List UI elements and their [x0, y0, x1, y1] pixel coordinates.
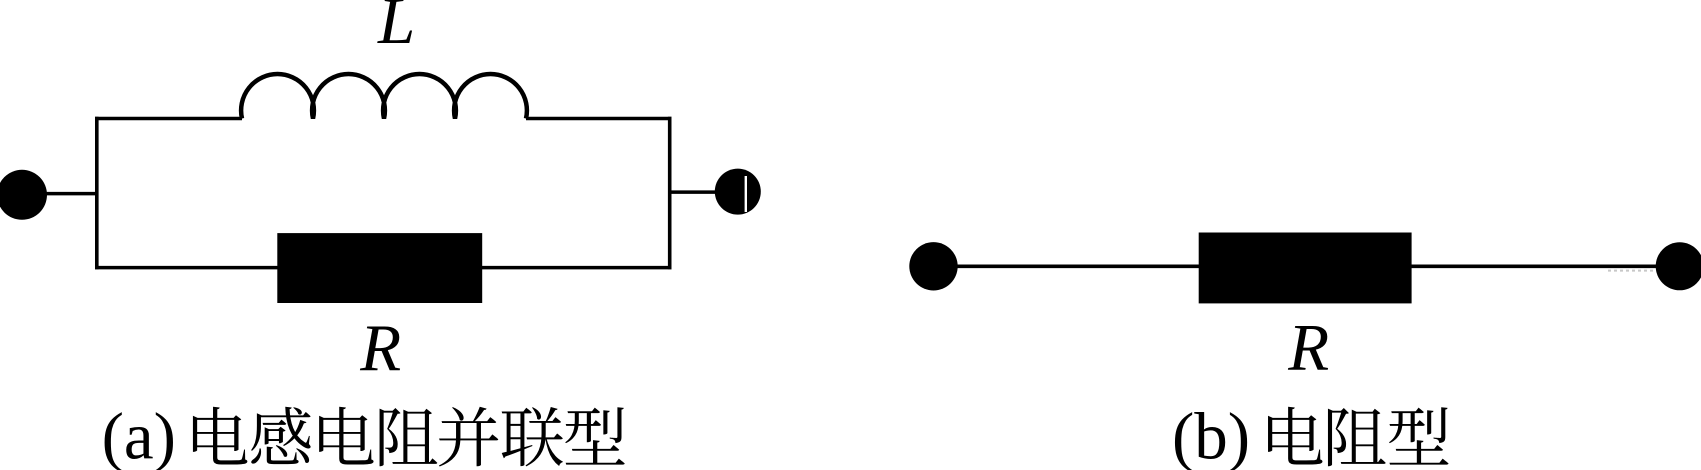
- svg-text:R: R: [359, 311, 401, 385]
- wire loop right vertical: [668, 117, 672, 269]
- svg-text:L: L: [377, 0, 415, 58]
- svg-text:(b): (b): [1172, 399, 1250, 470]
- wire loop bottom-left horizontal: [95, 266, 278, 270]
- resistor R (a) body: [277, 233, 482, 303]
- resistor R (b) body: [1199, 233, 1412, 304]
- wire loop top-right horizontal: [526, 117, 672, 121]
- terminal dot right (b): [1656, 242, 1701, 290]
- caption (b) text 电阻型: [1268, 407, 1322, 465]
- svg-text:R: R: [1287, 311, 1329, 385]
- wire loop left vertical: [95, 117, 99, 269]
- terminal dot right (a): [715, 169, 761, 215]
- wire loop top-left horizontal: [95, 117, 242, 121]
- terminal dot left (b): [909, 242, 957, 290]
- wire right lead (a): [670, 190, 720, 194]
- wire left (b): [950, 264, 1200, 268]
- wire left lead (a): [40, 192, 98, 196]
- svg-text:(a): (a): [102, 399, 176, 470]
- wire right (b): [1411, 264, 1670, 268]
- caption (a) text 电感电阻并联型: [193, 407, 247, 465]
- inductor L coil arcs: [241, 74, 527, 118]
- terminal dot left (a): [0, 170, 47, 220]
- terminal dot right (a) white mark: [745, 176, 747, 212]
- wire artifact dotted (b): [1608, 270, 1654, 272]
- wire loop bottom-right horizontal: [482, 266, 672, 270]
